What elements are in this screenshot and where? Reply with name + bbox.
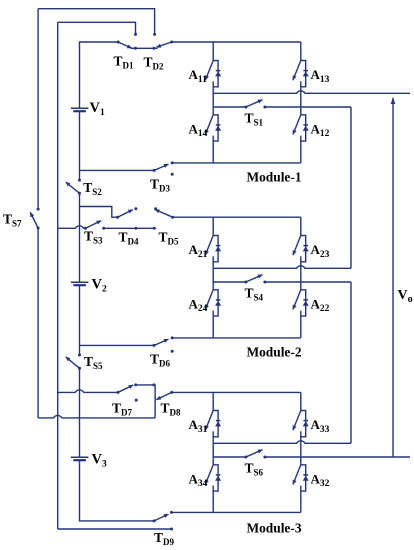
svg-text:TS7: TS7 xyxy=(3,212,22,229)
node TD3 alternate contact xyxy=(171,173,174,176)
wire module1 output tap to Vo+ xyxy=(213,91,410,93)
switch TS4 xyxy=(244,275,266,284)
svg-text:TS3: TS3 xyxy=(84,229,103,246)
node TD1 throw contact xyxy=(134,47,137,50)
wire TS2 to battery V2 xyxy=(79,193,81,282)
svg-text:TD3: TD3 xyxy=(150,177,171,194)
svg-text:Vo: Vo xyxy=(398,288,413,305)
wire top rail from node P to TD2 alternate contact xyxy=(38,9,155,34)
svg-text:A12: A12 xyxy=(311,121,330,139)
switch TS7 xyxy=(30,208,39,230)
wire battery V1 negative lead xyxy=(79,112,81,180)
wire module1 TS line right xyxy=(265,106,351,108)
switch TD4 xyxy=(116,210,133,219)
switch TS3 xyxy=(84,221,105,230)
switch TD8 xyxy=(156,391,173,400)
wire TD7 feed line xyxy=(58,390,118,392)
svg-text:A34: A34 xyxy=(189,471,208,489)
svg-text:TD6: TD6 xyxy=(150,352,171,369)
svg-text:A24: A24 xyxy=(189,296,208,314)
svg-text:TD1: TD1 xyxy=(114,54,135,71)
battery V3 xyxy=(71,457,89,460)
node TD1 alternate contact xyxy=(134,33,137,36)
switch TD3 xyxy=(153,161,174,172)
wire module1 TS line left xyxy=(213,106,246,108)
wire TS5 to battery V3 xyxy=(79,368,81,457)
wire module2 bottom rail left segment xyxy=(80,344,155,346)
node TD7 upper contact xyxy=(134,383,137,386)
wire TD7/TD8 upper segment xyxy=(136,384,155,386)
svg-text:TS2: TS2 xyxy=(83,180,102,197)
svg-text:TD4: TD4 xyxy=(119,230,140,247)
wire Vo measurement line with arrow xyxy=(392,98,394,457)
svg-text:TD9: TD9 xyxy=(154,530,175,547)
svg-text:V2: V2 xyxy=(92,277,107,295)
transistor-diode cell A12 xyxy=(293,115,309,141)
wire second vertical full drop xyxy=(57,22,59,529)
svg-text:A23: A23 xyxy=(311,242,330,260)
wire cascade link into module3 left midpoint xyxy=(213,441,351,443)
wire second top rail to TD1 alternate contact xyxy=(58,22,136,34)
svg-text:TD2: TD2 xyxy=(144,55,165,72)
wire battery V3 negative to TD9 xyxy=(80,461,155,521)
switch TS6 xyxy=(244,450,266,459)
transistor-diode cell A32 xyxy=(293,465,309,491)
wire module1 bottom rail left segment xyxy=(80,169,155,171)
svg-text:TS6: TS6 xyxy=(245,461,264,478)
wire riser to TD7/TD8 segment xyxy=(154,385,156,418)
wire TS3 alternate rail xyxy=(104,227,155,229)
svg-text:A32: A32 xyxy=(311,471,330,489)
transistor-diode cell A34 xyxy=(205,465,221,491)
wire module3 output line to Vo- xyxy=(265,456,410,458)
wire module3 bottom rail xyxy=(172,511,301,513)
battery V1 xyxy=(71,108,89,111)
wire TD1/TD2 middle segment xyxy=(131,47,158,49)
node TD7 lower contact xyxy=(135,399,138,402)
svg-text:A14: A14 xyxy=(189,121,208,139)
wire battery column top corner to TD1 xyxy=(80,42,119,108)
svg-text:A31: A31 xyxy=(189,417,208,435)
switch TD2 xyxy=(156,41,173,48)
svg-text:A22: A22 xyxy=(311,296,330,314)
wire module3 right rail xyxy=(300,392,302,512)
svg-text:TS4: TS4 xyxy=(245,286,264,303)
svg-text:V1: V1 xyxy=(90,100,105,118)
node TD4 lower contact xyxy=(134,227,137,230)
node TD5 upper contact xyxy=(154,207,157,210)
transistor-diode cell A14 xyxy=(205,115,221,141)
svg-text:A11: A11 xyxy=(189,67,208,85)
node TD8 upper contact xyxy=(152,383,155,386)
svg-text:TD5: TD5 xyxy=(159,230,180,247)
wire TD2 to module1 top rail xyxy=(172,41,301,43)
battery V2 xyxy=(71,282,89,285)
switch TD7 xyxy=(117,385,134,394)
wire TD8 to module3 top rail xyxy=(172,391,301,393)
node TD2 alternate contact xyxy=(153,33,156,36)
wire TD5 to module2 top rail xyxy=(173,216,301,218)
wire module1 right rail xyxy=(300,42,302,163)
wire module2 bottom rail right segment xyxy=(172,337,301,339)
transistor-diode cell A11 xyxy=(205,61,221,87)
switch TS2 xyxy=(66,179,81,195)
svg-text:Module-3: Module-3 xyxy=(246,521,301,536)
svg-text:TS5: TS5 xyxy=(84,354,103,371)
node TD6 alternate contact xyxy=(171,350,174,353)
switch TS1 xyxy=(244,100,266,109)
wire module1 bottom rail right segment xyxy=(172,162,301,164)
wire battery V2 negative lead xyxy=(79,286,81,355)
node TD4 upper contact xyxy=(134,207,137,210)
svg-text:A21: A21 xyxy=(189,242,208,260)
switch TD1 xyxy=(117,41,132,49)
switch TD6 xyxy=(153,336,174,347)
wire V2 positive tap to TD4 xyxy=(80,207,118,218)
node TD9 alternate contact xyxy=(170,528,173,531)
transistor-diode cell A22 xyxy=(293,290,309,316)
wire module2 right rail xyxy=(300,217,302,338)
switch TD9 xyxy=(153,511,173,523)
svg-text:Module-1: Module-1 xyxy=(246,170,301,185)
node TD2 throw contact xyxy=(152,47,155,50)
wire cascade link into module2 left midpoint xyxy=(213,266,351,268)
transistor-diode cell A23 xyxy=(293,236,309,262)
wire module2 left rail xyxy=(212,217,214,338)
svg-text:V3: V3 xyxy=(92,452,107,470)
svg-text:A33: A33 xyxy=(311,417,330,435)
transistor-diode cell A33 xyxy=(293,411,309,437)
svg-text:TD7: TD7 xyxy=(112,401,133,418)
svg-text:Module-2: Module-2 xyxy=(246,345,301,360)
node TD5 lower contact xyxy=(153,227,156,230)
wire TD9 alternate branch xyxy=(58,528,172,530)
wire far-left vertical lower (TS7 to bottom corner) xyxy=(37,228,39,418)
switch TD5 xyxy=(155,209,174,218)
wire module3 left rail xyxy=(212,392,214,512)
svg-text:TS1: TS1 xyxy=(245,111,264,128)
svg-text:A13: A13 xyxy=(311,67,330,85)
wire cascade vertical module1 to module2 xyxy=(350,107,352,268)
transistor-diode cell A21 xyxy=(205,236,221,262)
switch TS5 xyxy=(66,354,81,370)
transistor-diode cell A13 xyxy=(293,61,309,87)
wire far-left vertical upper (to TS7) xyxy=(37,9,39,209)
wire TS3 feed line xyxy=(58,226,86,228)
transistor-diode cell A31 xyxy=(205,411,221,437)
wire cascade vertical module2 to module3 xyxy=(350,282,352,443)
svg-text:TD8: TD8 xyxy=(161,401,182,418)
wire bottom-left horizontal to TD7/TD8 net xyxy=(38,415,155,417)
wire module2 TS line left xyxy=(213,281,246,283)
wire module1 left rail xyxy=(212,42,214,163)
wire module3 TS line left xyxy=(213,456,246,458)
transistor-diode cell A24 xyxy=(205,290,221,316)
wire module2 TS line right xyxy=(265,281,351,283)
